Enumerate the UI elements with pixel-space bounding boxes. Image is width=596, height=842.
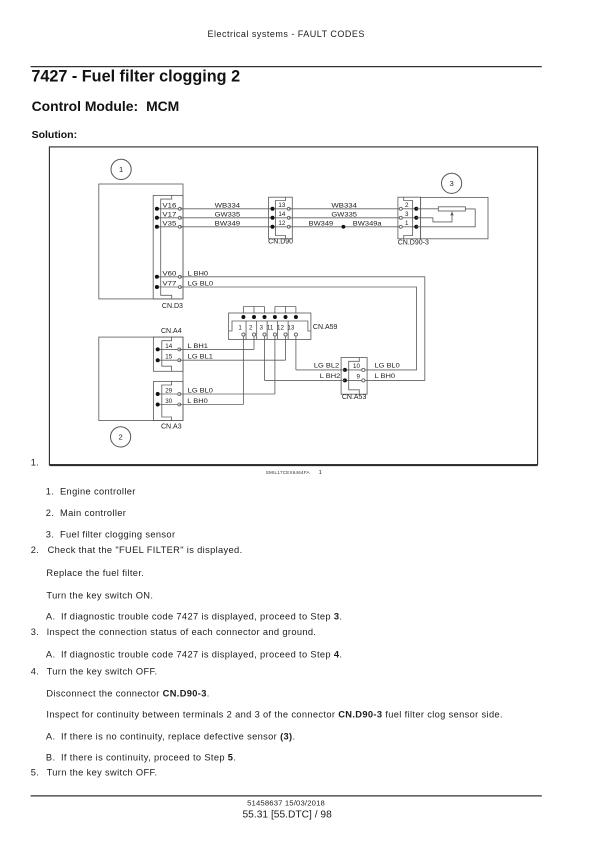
svg-text:1.: 1. (31, 457, 39, 467)
svg-text:CN.A4: CN.A4 (161, 328, 182, 335)
svg-text:3: 3 (405, 211, 409, 218)
svg-text:V16: V16 (162, 202, 177, 209)
svg-text:1.: 1. (46, 486, 54, 496)
svg-text:CN.A3: CN.A3 (161, 424, 182, 431)
svg-text:CN.D3: CN.D3 (162, 303, 183, 310)
svg-text:3.: 3. (31, 627, 39, 637)
svg-text:V17: V17 (162, 211, 177, 218)
svg-text:2.: 2. (46, 508, 54, 518)
svg-text:Check that the "FUEL FILTER" i: Check that the "FUEL FILTER" is displaye… (48, 545, 243, 555)
svg-text:3: 3 (259, 325, 263, 332)
svg-text:GW335: GW335 (215, 211, 241, 218)
svg-text:If diagnostic trouble code 742: If diagnostic trouble code 7427 is displ… (61, 650, 342, 660)
svg-text:L BH2: L BH2 (320, 373, 341, 380)
svg-text:10: 10 (353, 363, 360, 370)
svg-text:3.: 3. (46, 529, 54, 539)
svg-text:If diagnostic trouble code 742: If diagnostic trouble code 7427 is displ… (61, 611, 342, 621)
svg-text:12: 12 (277, 325, 284, 332)
svg-text:WB334: WB334 (331, 202, 357, 209)
svg-text:Turn the key switch ON.: Turn the key switch ON. (46, 591, 153, 601)
svg-text:Engine controller: Engine controller (60, 486, 136, 496)
svg-text:2.: 2. (31, 545, 39, 555)
svg-text:GW335: GW335 (331, 211, 357, 218)
svg-text:BW349a: BW349a (353, 220, 382, 227)
svg-text:L BH0: L BH0 (188, 270, 209, 277)
svg-text:LG BL0: LG BL0 (188, 281, 214, 288)
svg-text:LG BL1: LG BL1 (188, 353, 214, 360)
svg-text:Replace the fuel filter.: Replace the fuel filter. (46, 568, 144, 578)
svg-text:CN.A59: CN.A59 (313, 324, 338, 331)
svg-text:Main controller: Main controller (60, 508, 126, 518)
svg-text:13: 13 (278, 202, 285, 209)
svg-text:WB334: WB334 (215, 202, 241, 209)
svg-text:14: 14 (278, 211, 285, 218)
svg-text:L BH0: L BH0 (375, 373, 396, 380)
svg-text:3: 3 (449, 179, 453, 188)
svg-text:1: 1 (319, 470, 322, 476)
svg-text:L BH0: L BH0 (187, 398, 208, 405)
svg-text:CN.D90: CN.D90 (268, 239, 293, 246)
svg-text:BW349: BW349 (309, 220, 334, 227)
svg-text:V35: V35 (162, 220, 177, 227)
svg-text:A.: A. (46, 650, 55, 660)
svg-text:Control Module:MCM: Control Module:MCM (32, 98, 180, 114)
svg-text:2: 2 (249, 325, 253, 332)
svg-text:Turn the key switch OFF.: Turn the key switch OFF. (47, 767, 158, 777)
svg-text:Disconnect the connector CN.D9: Disconnect the connector CN.D90-3. (46, 688, 209, 698)
svg-text:LG BL2: LG BL2 (314, 363, 340, 370)
svg-text:2: 2 (118, 433, 122, 442)
svg-text:4.: 4. (31, 666, 39, 676)
svg-text:B.: B. (46, 752, 55, 762)
svg-text:SMIL17CEX6464FA: SMIL17CEX6464FA (266, 470, 311, 475)
svg-text:A.: A. (46, 611, 55, 621)
svg-text:55.31 [55.DTC] / 98: 55.31 [55.DTC] / 98 (243, 810, 333, 821)
svg-text:V77: V77 (162, 281, 177, 288)
svg-text:30: 30 (165, 398, 172, 405)
svg-text:1: 1 (119, 165, 123, 174)
svg-text:7427 - Fuel filter clogging 2: 7427 - Fuel filter clogging 2 (31, 67, 240, 85)
svg-text:If there is continuity, procee: If there is continuity, proceed to Step … (61, 752, 236, 762)
svg-text:Turn the key switch OFF.: Turn the key switch OFF. (47, 666, 158, 676)
svg-text:1: 1 (238, 325, 242, 332)
svg-text:Electrical systems - FAULT COD: Electrical systems - FAULT CODES (208, 29, 365, 39)
svg-text:14: 14 (165, 343, 172, 350)
svg-text:LG BL0: LG BL0 (375, 363, 401, 370)
svg-text:9: 9 (356, 373, 360, 380)
svg-text:CN.D90-3: CN.D90-3 (398, 239, 429, 246)
svg-text:29: 29 (165, 388, 172, 395)
svg-text:A.: A. (46, 732, 55, 742)
svg-text:Inspect the connection status: Inspect the connection status of each co… (47, 627, 317, 637)
svg-text:Fuel filter clogging sensor: Fuel filter clogging sensor (60, 529, 175, 539)
svg-text:V60: V60 (162, 270, 177, 277)
svg-text:BW349: BW349 (215, 220, 241, 227)
svg-text:L BH1: L BH1 (187, 343, 208, 350)
svg-text:15: 15 (165, 354, 172, 361)
svg-text:LG BL0: LG BL0 (188, 388, 214, 395)
svg-text:Inspect for continuity between: Inspect for continuity between terminals… (46, 710, 503, 720)
svg-text:11: 11 (267, 325, 274, 332)
svg-text:5.: 5. (31, 767, 39, 777)
svg-text:Solution:: Solution: (32, 129, 78, 141)
svg-text:12: 12 (278, 220, 285, 227)
svg-text:If there is no continuity, rep: If there is no continuity, replace defec… (61, 732, 295, 742)
svg-text:51458637 15/03/2018: 51458637 15/03/2018 (247, 799, 325, 808)
svg-text:1: 1 (405, 220, 409, 227)
svg-text:2: 2 (405, 202, 409, 209)
svg-text:13: 13 (287, 325, 294, 332)
svg-text:CN.A53: CN.A53 (342, 394, 367, 401)
